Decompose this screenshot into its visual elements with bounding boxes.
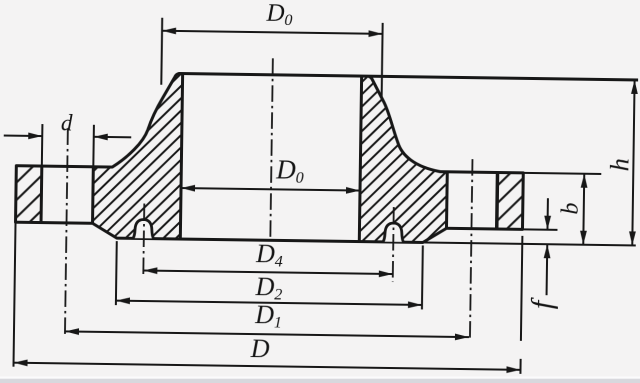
dome centerline right (393, 207, 394, 282)
flange top edge left (over bolt hole) (16, 166, 99, 167)
flange right edge (521, 173, 525, 229)
flange left edge (14, 166, 18, 222)
right bolt hole right wall (495, 173, 499, 229)
dimension b: line and arrows (583, 174, 584, 245)
flange body right hub cross-section (359, 76, 448, 243)
flange bottom edge right (446, 228, 522, 229)
center axis line (270, 58, 273, 240)
flange top edge right (over bolt hole) (440, 172, 523, 173)
flange top extension right (for b) (523, 173, 601, 174)
flange bottom extension right (for f) (522, 228, 557, 230)
dimension D4: line and arrows (143, 271, 392, 275)
bolt hole right wall (91, 167, 95, 223)
dimension D2: extension lines (115, 241, 118, 305)
raised face bottom edge with extension (for f,b,h) (117, 238, 423, 242)
dimension D0 top: arrows (162, 27, 176, 34)
dimension d: lines and arrows (4, 135, 42, 138)
dimension D0 middle: line and arrows (181, 188, 360, 191)
dimension D1: line and arrows (65, 331, 469, 337)
neck top edge with h extension (179, 73, 638, 79)
bolt hole left wall (40, 166, 44, 222)
svg-text:D: D (250, 334, 270, 363)
dimension D: line and arrows (14, 363, 521, 370)
right bolt hole left wall (445, 172, 449, 228)
dimension D0 top: extension lines (160, 18, 163, 85)
dimension D0 top: line (162, 31, 382, 34)
right rim block (497, 173, 523, 230)
svg-text:h: h (605, 158, 634, 171)
bottom strip (0, 377, 640, 379)
dome centerline left (143, 204, 144, 277)
svg-text:d: d (61, 110, 73, 135)
bolt hole centerline left (65, 128, 68, 336)
flange body left hub cross-section (92, 72, 182, 239)
dimension h: line and arrows (632, 80, 634, 245)
dimension D: extension lines (13, 222, 15, 366)
bolt hole centerline right (470, 159, 473, 341)
sealing dome right (383, 223, 404, 242)
dimension d: extension lines (41, 124, 44, 166)
dimension f: lines and arrows (546, 198, 548, 229)
flange bottom edge left (16, 222, 93, 223)
svg-text:b: b (558, 202, 584, 214)
dimension D2: line and arrows (116, 301, 422, 305)
sealing dome left (133, 219, 154, 238)
left rim block (16, 166, 42, 223)
